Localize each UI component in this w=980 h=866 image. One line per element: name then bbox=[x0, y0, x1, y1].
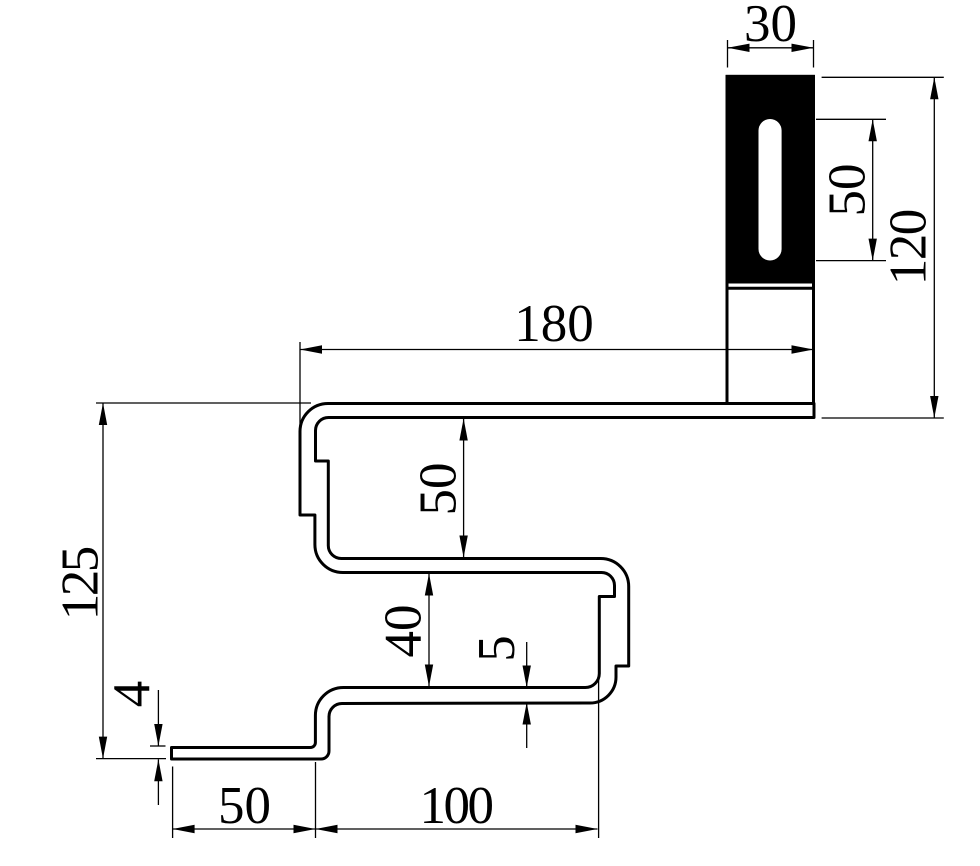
svg-text:180: 180 bbox=[514, 295, 594, 353]
dimension 50 (slot) line bbox=[872, 119, 874, 260]
dimension 125 line bbox=[102, 403, 104, 759]
svg-text:50: 50 bbox=[819, 164, 877, 217]
dimension 4 extension tick bbox=[150, 745, 166, 747]
dimension 50/100 extension lines bbox=[173, 675, 599, 838]
plate fill boundary line bbox=[727, 287, 814, 290]
dimension 40 arrows bbox=[425, 574, 433, 596]
dimension 40 line bbox=[428, 574, 430, 687]
dimension 120 line bbox=[933, 77, 935, 418]
svg-text:50: 50 bbox=[410, 463, 468, 516]
svg-text:125: 125 bbox=[52, 546, 110, 621]
vertical plate lower (white) portion outline bbox=[727, 77, 814, 404]
svg-text:5: 5 bbox=[468, 635, 526, 662]
dimension 30 line bbox=[728, 47, 814, 49]
dimension 125 arrows bbox=[99, 403, 107, 425]
dimension 50 (slot) extension lines bbox=[816, 119, 886, 260]
dimension 120 arrows bbox=[930, 77, 938, 99]
dimension 30 extension lines bbox=[728, 40, 814, 68]
svg-text:50: 50 bbox=[218, 777, 271, 835]
dimension 120 extension lines bbox=[822, 77, 944, 418]
dimension 5 arrows bbox=[523, 666, 531, 688]
dimension 100 arrows bbox=[316, 825, 338, 833]
svg-text:4: 4 bbox=[103, 681, 161, 708]
dimension 125 extension lines bbox=[96, 403, 311, 759]
bracket profile outline (bent sheet cross-section) bbox=[172, 404, 815, 760]
svg-text:100: 100 bbox=[420, 777, 495, 835]
dimension 180 extension line bbox=[299, 342, 301, 430]
dimension 180 arrows bbox=[300, 345, 322, 353]
dimension 50 (middle) arrows bbox=[459, 419, 467, 441]
dimension 30 arrows bbox=[728, 44, 750, 52]
svg-text:30: 30 bbox=[744, 0, 797, 53]
svg-text:40: 40 bbox=[375, 605, 433, 658]
vertical plate upper black-filled portion bbox=[726, 75, 815, 284]
dimension 50 (middle) line bbox=[463, 419, 465, 558]
svg-text:120: 120 bbox=[880, 209, 938, 286]
dimension 50/100 line bbox=[173, 828, 598, 830]
dimension 4 lines bbox=[157, 690, 159, 746]
dimension 50 (slot) arrows bbox=[869, 119, 877, 141]
slot hole in plate bbox=[759, 119, 782, 261]
dimension 50 (bottom) arrows bbox=[173, 825, 195, 833]
dimension 180 line bbox=[300, 349, 814, 351]
dimension 5 lines bbox=[526, 642, 528, 688]
dimension 4 arrows bbox=[154, 724, 162, 746]
